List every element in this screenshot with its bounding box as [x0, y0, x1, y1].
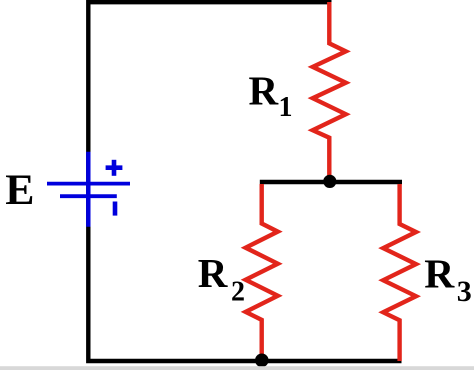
node A: junction dot at R1/R2/R3	[323, 175, 336, 188]
wire: outer loop (top, left, bottom)	[88, 2, 401, 361]
svg-text:R: R	[424, 250, 455, 296]
svg-text:R: R	[198, 250, 228, 296]
resistor R3	[383, 184, 416, 361]
bottom gray border line	[0, 366, 474, 370]
resistor R1	[313, 2, 346, 179]
wire: middle horizontal node wire	[260, 180, 402, 185]
resistor R2	[246, 184, 278, 356]
battery E: minus sign (vertical tick)	[113, 202, 118, 216]
battery E: plus sign	[106, 160, 123, 176]
battery E: top plate	[47, 182, 130, 186]
svg-text:2: 2	[231, 276, 245, 307]
svg-text:E: E	[5, 166, 34, 214]
battery E: bottom plate	[60, 194, 117, 198]
svg-text:R: R	[249, 67, 279, 113]
svg-text:1: 1	[279, 92, 293, 123]
battery E: blue vertical lead	[86, 152, 90, 227]
node B: junction dot on bottom wire	[255, 354, 269, 368]
svg-text:3: 3	[457, 275, 472, 308]
